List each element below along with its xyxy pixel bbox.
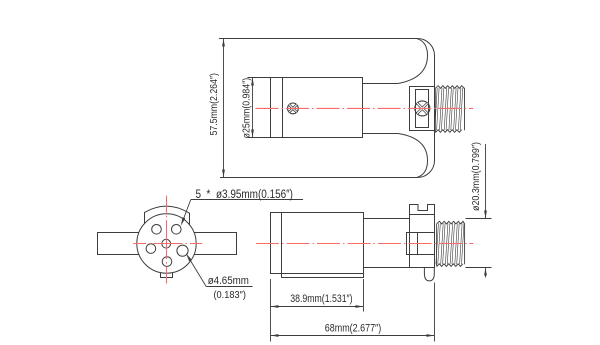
arrowhead 57.5 top (222, 39, 225, 47)
dimension o20.3mm: line segments (485, 144, 487, 278)
end view: hole top-right (172, 225, 182, 235)
dimension o25mm: line (252, 78, 254, 137)
end view: left wing (98, 233, 140, 255)
end view: hole left (146, 244, 156, 254)
dimension o25mm: extension lines (248, 78, 271, 138)
top side view: nut inner window (416, 90, 429, 128)
top side view: guard cage outline (219, 39, 435, 178)
dimension 68mm: line (271, 335, 434, 337)
arrowhead o20.3 bottom (484, 268, 487, 276)
svg-text:68mm(2.677″): 68mm(2.677″) (325, 323, 381, 335)
top side view: float body cap line (282, 78, 284, 138)
end view: bottom tab (161, 273, 173, 278)
red center line: bottom side view (256, 243, 473, 245)
bottom side view: threads (436, 221, 465, 266)
svg-text:57.5mm(2.264″): 57.5mm(2.264″) (209, 73, 220, 136)
end view: main circle (137, 214, 196, 273)
bottom side view: connector box (407, 233, 435, 255)
arrowhead leader 4.65 (186, 253, 192, 261)
end view: hole center (162, 239, 171, 248)
bottom side view: neck bottom line (364, 267, 410, 269)
svg-text:ø4.65mm: ø4.65mm (208, 275, 249, 287)
bottom side view: neck top line (364, 218, 410, 220)
bottom side view: body (271, 213, 364, 274)
end view: right wing (194, 233, 237, 255)
top side view: orientation mark on body (288, 103, 299, 114)
dimension 38.9mm: extension lines (271, 279, 364, 342)
arrowhead o25 top (251, 78, 254, 86)
arrowhead o25 bottom (251, 130, 254, 138)
end view: hole top-left (152, 225, 162, 235)
bottom side view: flange shoulder line (410, 214, 435, 216)
arrowhead o20.3 top (484, 211, 487, 219)
svg-text:ø20.3mm(0.799″): ø20.3mm(0.799″) (471, 142, 482, 211)
arrowhead 38.9 right (356, 305, 364, 308)
dimension 38.9mm: line (271, 306, 363, 308)
dimension 57.5mm: line (223, 39, 225, 177)
arrowhead 57.5 bottom (222, 170, 225, 178)
top side view: cage inner flare top (363, 39, 428, 84)
arrowhead 68 left (271, 334, 279, 337)
svg-text:(0.183″): (0.183″) (214, 290, 246, 301)
bottom side view: connector box divider (417, 233, 419, 255)
top side view: float body (271, 78, 363, 138)
label 5xo3.95: underline and leader (182, 200, 303, 224)
red center line: end view horizontal (133, 243, 202, 245)
svg-text:38.9mm(1.531″): 38.9mm(1.531″) (290, 293, 353, 305)
label o4.65: underline and leader (188, 256, 253, 286)
end view: hole right large (177, 245, 188, 256)
red center line: end view vertical (166, 196, 168, 284)
svg-text:ø25mm(0.984″): ø25mm(0.984″) (242, 78, 253, 139)
bottom side view: flange with prongs (410, 205, 435, 268)
end view: hole bottom (162, 257, 172, 267)
arrowhead 68 right (427, 334, 435, 337)
top side view: threads (435, 86, 465, 133)
bottom side view: bottom rib (282, 274, 364, 278)
top side view: orientation mark on nut (415, 101, 430, 116)
arrowhead 38.9 left (271, 305, 279, 308)
red center line: top side view (133, 108, 473, 283)
arrowhead leader 3.95 (181, 217, 185, 226)
top side view: cage inner flare bottom (363, 134, 428, 178)
bottom side view: hook tab (424, 268, 434, 281)
bottom side view: body cap line (281, 213, 283, 274)
svg-text:5 * ø3.95mm(0.156″): 5 * ø3.95mm(0.156″) (196, 187, 294, 201)
top side view: nut block (410, 87, 435, 131)
end view: top cap band (145, 206, 190, 225)
dimension o20.3mm: extension lines (466, 219, 492, 268)
dimension 68mm: extension line (434, 283, 436, 342)
